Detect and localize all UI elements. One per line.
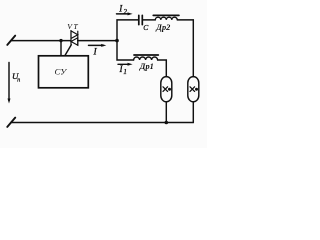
line-break slash bottom-left <box>7 118 15 127</box>
svg-text:Др1: Др1 <box>139 62 154 71</box>
control unit box SU <box>39 56 89 88</box>
wire triac to node A <box>78 40 117 42</box>
capacitor C <box>139 15 143 24</box>
current arrow I2 <box>117 12 133 15</box>
lamp EL1 <box>161 77 172 102</box>
svg-text:Др2: Др2 <box>155 23 170 32</box>
wire node A down to choke Dr1 <box>117 41 134 60</box>
line-break slash top-left <box>7 36 15 45</box>
node A junction dot <box>115 39 119 43</box>
wire Dr2 to lamp EL2 <box>177 20 193 77</box>
triac VT <box>71 31 78 46</box>
svg-text:СУ: СУ <box>55 67 68 77</box>
svg-text:1: 1 <box>123 68 127 76</box>
label I1 <box>119 64 127 76</box>
junction dot on top rail <box>59 39 62 42</box>
choke Dr2 <box>153 15 179 20</box>
junction dot bottom rail <box>165 121 169 125</box>
wire top supply rail <box>11 40 71 42</box>
svg-text:VT: VT <box>67 22 79 31</box>
label Un arrow <box>8 63 11 104</box>
svg-text:п: п <box>17 76 20 83</box>
wire node A up to capacitor <box>117 20 139 41</box>
label I2 <box>118 3 127 16</box>
wire lamp EL2 to bottom rail <box>192 102 194 123</box>
choke Dr1 <box>134 55 159 60</box>
wire capacitor to choke Dr2 <box>142 19 155 21</box>
current arrow I <box>89 44 107 47</box>
gate wire triac to control unit <box>65 45 72 56</box>
current arrow I1 <box>118 63 133 66</box>
wire lamp EL1 to bottom rail <box>165 102 167 123</box>
bottom rail wire <box>11 122 194 124</box>
wire main line to control unit <box>60 41 62 56</box>
wire Dr1 to lamp EL1 <box>158 60 167 77</box>
svg-text:2: 2 <box>123 8 127 16</box>
lamp EL2 <box>188 77 199 102</box>
label Un text <box>12 71 20 83</box>
